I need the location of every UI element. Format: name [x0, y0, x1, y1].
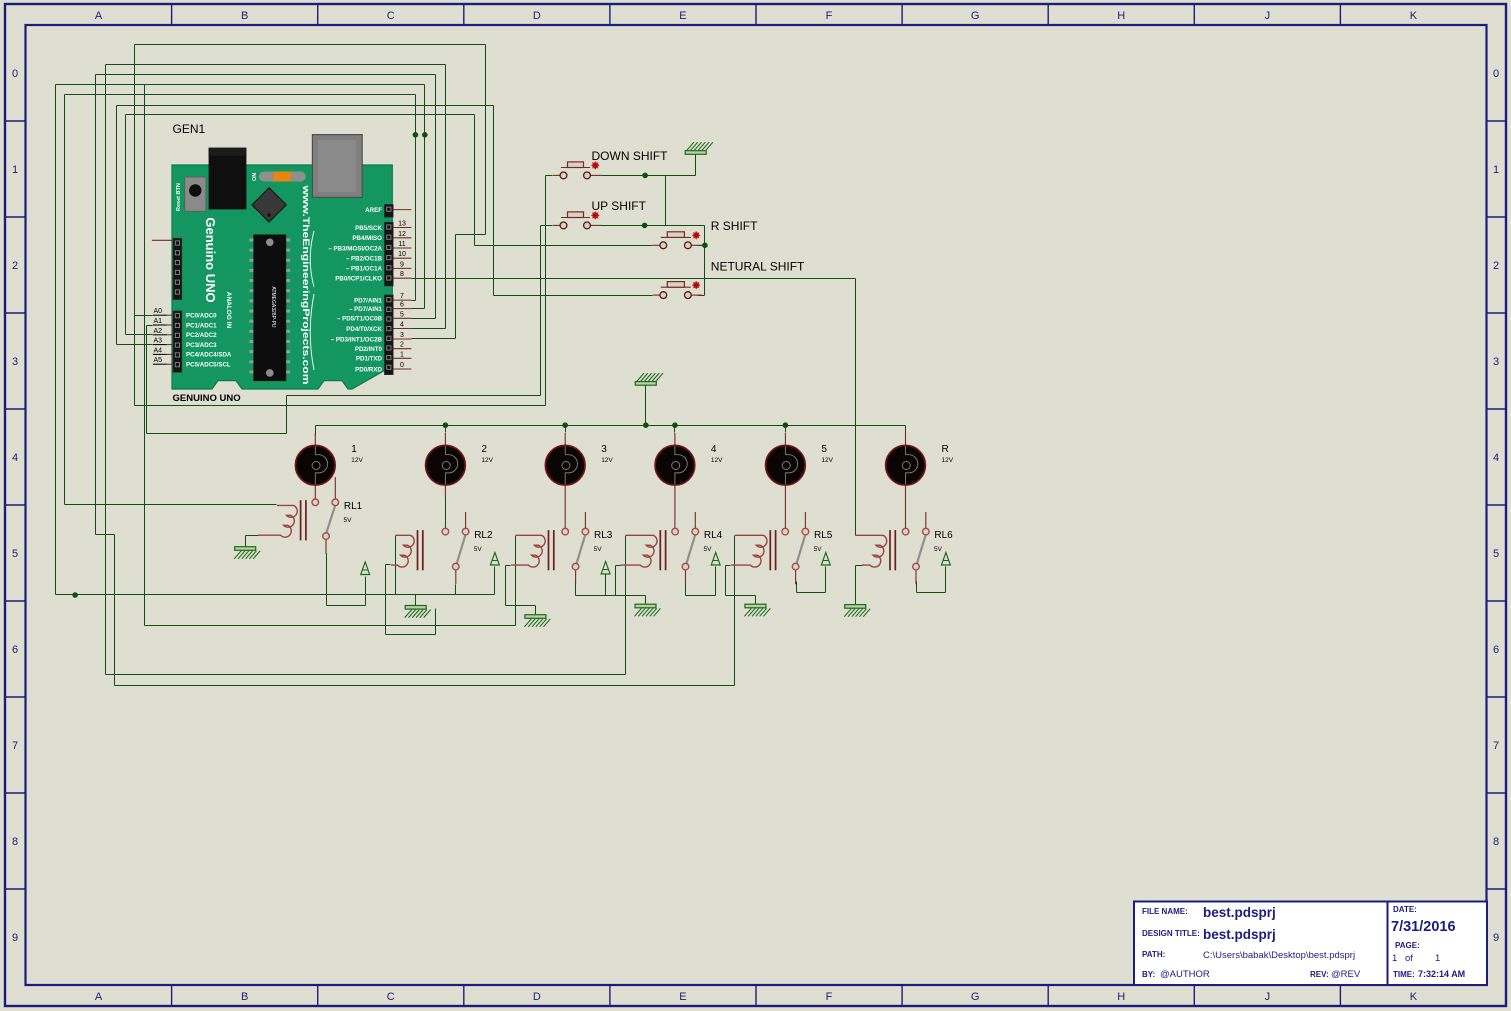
svg-text:2: 2 [12, 260, 18, 272]
wire lamp3 top [565, 426, 567, 433]
wire rl4 common drop [685, 582, 687, 596]
wire pin8/netural run [412, 278, 856, 280]
button NETURAL SHIFT [661, 286, 691, 288]
svg-text:1: 1 [1392, 953, 1397, 964]
wire rl5 coil drop [734, 536, 736, 686]
svg-text:13: 13 [398, 221, 406, 228]
svg-text:PD7/AIN1: PD7/AIN1 [354, 297, 382, 304]
wire rshift left drop [474, 115, 476, 246]
svg-text:K: K [1410, 10, 1418, 22]
svg-text:5V: 5V [814, 546, 823, 553]
junction rail ground [643, 422, 649, 428]
wire H6 netural net [117, 105, 494, 107]
svg-text:H: H [1117, 10, 1125, 22]
svg-text:– PB3/MOSI/OC2A: – PB3/MOSI/OC2A [328, 245, 382, 252]
wire down-shift rise [545, 176, 547, 406]
wire pin3 link [412, 338, 456, 340]
svg-text:5: 5 [1493, 548, 1499, 560]
svg-text:RL5: RL5 [814, 530, 833, 541]
svg-text:D: D [533, 10, 541, 22]
wire A3 link [117, 344, 153, 346]
wire V8 [144, 85, 146, 626]
svg-text:5V: 5V [474, 546, 483, 553]
svg-text:4: 4 [400, 322, 404, 329]
header power [173, 238, 182, 299]
junction pin7 riser [413, 132, 419, 138]
svg-text:DESIGN TITLE:: DESIGN TITLE: [1142, 929, 1200, 938]
pin 12 (PB4/MISO) [393, 237, 411, 239]
svg-text:2: 2 [481, 444, 487, 455]
wire up-shift rise [286, 396, 288, 434]
svg-text:A: A [95, 991, 103, 1003]
svg-text:0: 0 [400, 362, 404, 369]
terminal arrow 4 [711, 553, 720, 566]
svg-text:– PB1/OC1A: – PB1/OC1A [346, 266, 383, 273]
wire netural drop rl6 [855, 279, 857, 536]
ground (buttons) [685, 151, 706, 155]
pin 1 (PD1/TXD) [393, 357, 411, 359]
ground G2 (RL2) [405, 606, 426, 610]
svg-text:A5: A5 [154, 357, 163, 364]
ground G4 (RL5) [745, 604, 766, 608]
svg-text:PB0/ICP1/CLKO: PB0/ICP1/CLKO [335, 276, 382, 283]
wire down left [546, 175, 553, 177]
wire g4 stem [755, 596, 757, 605]
svg-text:PC4/ADC4/SDA: PC4/ADC4/SDA [186, 352, 232, 359]
junction left rail [72, 592, 78, 598]
svg-text:1: 1 [351, 444, 357, 455]
svg-text:F: F [826, 991, 833, 1003]
svg-text:– PD5/T1/OC0B: – PD5/T1/OC0B [337, 316, 383, 323]
pin 10 (PB2/OC1B) [393, 257, 411, 259]
ground G6 (RL6 coil) [845, 605, 866, 609]
title block [1134, 902, 1487, 986]
wire H7 rshift net [126, 114, 475, 116]
svg-text:7: 7 [1493, 740, 1499, 752]
wire rl6 common drop [916, 582, 918, 593]
terminal arrow 3 [601, 562, 610, 575]
svg-text:PAGE:: PAGE: [1395, 941, 1420, 950]
lamp R (12V) [905, 433, 907, 447]
svg-text:12V: 12V [351, 457, 363, 464]
svg-text:PD0/RXD: PD0/RXD [355, 366, 382, 373]
svg-text:RL1: RL1 [344, 501, 363, 512]
svg-text:0: 0 [1493, 68, 1499, 80]
svg-text:B: B [241, 10, 248, 22]
wire rl1 gnd drop [245, 536, 247, 547]
junction rail lamp4 [672, 422, 678, 428]
wire arrow6 stem [945, 567, 947, 593]
svg-text:8: 8 [1493, 836, 1499, 848]
svg-text:PC3/ADC3: PC3/ADC3 [186, 342, 217, 349]
svg-text:A2: A2 [154, 328, 163, 335]
svg-text:FILE NAME:: FILE NAME: [1142, 907, 1188, 916]
wire g2b stem [535, 606, 537, 616]
svg-text:3: 3 [1493, 356, 1499, 368]
svg-text:RL4: RL4 [704, 530, 723, 541]
wire chain2 [704, 226, 706, 296]
svg-text:7/31/2016: 7/31/2016 [1391, 919, 1456, 935]
wire V1 [55, 85, 57, 595]
wire lamp2 top [445, 426, 447, 433]
wire A0 link [135, 315, 153, 317]
wire A1 link [147, 325, 153, 327]
relay RL3 (5V) [548, 530, 550, 570]
wire rl6 common run [917, 592, 946, 594]
svg-text:NETURAL SHIFT: NETURAL SHIFT [711, 260, 805, 274]
ground (lamp rail) [635, 382, 656, 386]
svg-text:DATE:: DATE: [1393, 905, 1417, 914]
wire pin5 rise [435, 75, 437, 319]
pin A2 (PC2/ADC2) [166, 334, 173, 336]
svg-text:PD4/T0/XCK: PD4/T0/XCK [346, 326, 382, 333]
svg-text:REV:: REV: [1310, 970, 1329, 979]
svg-text:@AUTHOR: @AUTHOR [1160, 969, 1210, 980]
svg-text:– PD7/AIN1: – PD7/AIN1 [349, 306, 383, 313]
wire pin3 rise2 [485, 45, 487, 235]
pin 2 (PD2/INT0) [393, 348, 411, 350]
wire btn gnd stem [695, 155, 697, 176]
wire arrow1 stem [365, 577, 367, 606]
wire H4 pin6 net [56, 84, 425, 86]
svg-text:7: 7 [12, 740, 18, 752]
wire rl2 coilb rise [435, 609, 437, 635]
svg-text:5: 5 [400, 311, 404, 318]
wire pin3 rise [455, 235, 457, 339]
lamp 4 (12V) [674, 433, 676, 447]
junction rail lamp5 [783, 422, 789, 428]
svg-text:12V: 12V [601, 457, 613, 464]
wire rl1 common run [327, 605, 366, 607]
wire V7 [134, 45, 136, 406]
svg-text:A0: A0 [154, 308, 163, 315]
wire rl3 coilb run [506, 605, 536, 607]
svg-text:2: 2 [1493, 260, 1499, 272]
pin 5 (PD5/T1/OC0B) [393, 317, 411, 319]
pin A5 (PC5/ADC5/SCL) [166, 363, 173, 365]
pin A4 (PC4/ADC4/SDA) [166, 353, 173, 355]
svg-text:5V: 5V [594, 546, 603, 553]
wire rl2 coilb run [386, 634, 436, 636]
pin 0 (PD0/RXD) [393, 368, 411, 370]
wire pin6 link [412, 308, 425, 310]
ground G3 (RL3/RL4) [635, 604, 656, 608]
svg-text:9: 9 [12, 932, 18, 944]
junction rail lamp2 [443, 422, 449, 428]
svg-text:best.pdsprj: best.pdsprj [1203, 927, 1276, 942]
wire V5 [116, 106, 118, 345]
wire down right [602, 175, 696, 177]
svg-text:PB5/SCK: PB5/SCK [355, 225, 382, 232]
wire pin4 rise [445, 65, 447, 329]
svg-text:1: 1 [1493, 164, 1499, 176]
svg-text:www.TheEngineeringProjects.com: www.TheEngineeringProjects.com [301, 184, 311, 384]
junction r-shift row [702, 243, 708, 249]
svg-text:H: H [1117, 991, 1125, 1003]
wire rl1 coil feed [65, 504, 277, 506]
svg-text:3: 3 [601, 444, 607, 455]
wire V6 [125, 115, 127, 335]
svg-text:1: 1 [1435, 953, 1440, 964]
svg-text:8: 8 [12, 836, 18, 848]
wire lamp rail [316, 425, 906, 427]
wire arrow3 stem [605, 575, 607, 596]
wire rl5 common drop [796, 582, 798, 593]
terminal arrow 5 [821, 553, 830, 566]
pin 13 (PB5/SCK) [393, 227, 411, 229]
wire rl5 common run [797, 592, 826, 594]
wire arrow5 stem [825, 567, 827, 593]
svg-text:PD2/INT0: PD2/INT0 [355, 346, 383, 353]
pin A3 (PC3/ADC3) [166, 344, 173, 346]
svg-text:5V: 5V [704, 546, 713, 553]
wire lamp4 top [674, 426, 676, 433]
svg-text:AREF: AREF [365, 207, 382, 214]
lamp 1 (12V) [314, 433, 316, 447]
wire V2 [64, 95, 66, 505]
wire lamp2 bottom link [445, 497, 447, 529]
pin 7 (PD7/AIN1) [393, 299, 411, 301]
svg-text:10: 10 [398, 251, 406, 258]
svg-text:A4: A4 [154, 347, 163, 354]
wire rl2 main [56, 594, 456, 596]
wire rl3 common drop [575, 582, 577, 596]
wire rl3 coil run [145, 625, 516, 627]
svg-text:3: 3 [400, 332, 404, 339]
svg-text:PB4/MISO: PB4/MISO [352, 235, 382, 242]
svg-text:J: J [1265, 10, 1271, 22]
svg-text:5V: 5V [934, 546, 943, 553]
header digital 13-8 [385, 222, 394, 286]
wire chain1 [665, 176, 667, 226]
svg-text:5V: 5V [344, 517, 353, 524]
wire H3 pin5 net [96, 74, 436, 76]
wire lamp1 top [315, 426, 317, 435]
wire rl3 coil rise [515, 536, 517, 626]
svg-text:A1: A1 [154, 318, 163, 325]
wire rl5 coilb l [726, 565, 731, 567]
button R SHIFT [661, 236, 691, 238]
svg-text:G: G [971, 991, 980, 1003]
svg-text:7:32:14 AM: 7:32:14 AM [1418, 969, 1465, 979]
svg-text:PC5/ADC5/SCL: PC5/ADC5/SCL [186, 362, 231, 369]
svg-text:6: 6 [1493, 644, 1499, 656]
pin 4 (PD4/T0/XCK) [393, 328, 411, 330]
svg-text:of: of [1405, 953, 1413, 964]
relay RL1 (5V) [300, 500, 302, 540]
svg-text:5: 5 [12, 548, 18, 560]
svg-text:A: A [95, 10, 103, 22]
wire rl4 coilb drop [615, 566, 617, 596]
terminal arrow 6 [941, 553, 950, 566]
svg-text:C:\Users\babak\Desktop\best.pd: C:\Users\babak\Desktop\best.pdsprj [1203, 950, 1355, 961]
pin 11 (PB3/MOSI/OC2A) [393, 247, 411, 249]
wire rl3 coilb l [506, 565, 511, 567]
svg-text:PC0/ADC0: PC0/ADC0 [186, 313, 217, 320]
wire arrow4 stem [715, 567, 717, 596]
wire rl2 common vdrop [455, 585, 457, 595]
svg-text:4: 4 [711, 444, 717, 455]
wire pin6 rise [424, 85, 426, 309]
svg-text:DOWN SHIFT: DOWN SHIFT [592, 149, 669, 163]
svg-text:ON: ON [252, 173, 258, 181]
wire rl2 coilb drop [385, 565, 387, 635]
svg-text:RL2: RL2 [474, 530, 493, 541]
pin A0 (PC0/ADC0) [166, 314, 173, 316]
pin AREF (AREF) [393, 209, 411, 211]
svg-text:4: 4 [1493, 452, 1499, 464]
wire A1 drop [146, 326, 148, 434]
svg-text:RL6: RL6 [934, 530, 953, 541]
svg-text:ANALOG IN: ANALOG IN [225, 292, 232, 329]
wire rl4 common run [686, 595, 716, 597]
header analog A0-A5 [173, 311, 182, 372]
wire g2 stem [415, 595, 417, 607]
wire pin7 link [412, 300, 416, 302]
svg-text:GEN1: GEN1 [173, 122, 206, 136]
svg-text:7: 7 [400, 293, 404, 300]
svg-text:6: 6 [12, 644, 18, 656]
svg-text:– PB2/OC1B: – PB2/OC1B [346, 256, 383, 263]
junction rail lamp3 [562, 422, 568, 428]
pin A1 (PC1/ADC1) [166, 324, 173, 326]
svg-text:0: 0 [12, 68, 18, 80]
svg-text:D: D [533, 991, 541, 1003]
lamp 3 (12V) [564, 433, 566, 447]
wire rl1 common drop [326, 554, 328, 606]
relay RL2 (5V) [417, 530, 419, 570]
svg-text:Genuino UNO: Genuino UNO [203, 217, 218, 302]
wire net right link [698, 295, 705, 297]
wire rail gnd stem [645, 385, 647, 426]
svg-text:Reset BTN: Reset BTN [176, 183, 182, 211]
wire H5 pin7 net [65, 94, 416, 96]
svg-text:UP SHIFT: UP SHIFT [592, 199, 647, 213]
svg-text:6: 6 [400, 302, 404, 309]
wire pin3 jog [456, 234, 486, 236]
wire H2 pin4 net [106, 64, 446, 66]
header AREF [385, 205, 394, 218]
wire bottom bundle1 [106, 674, 626, 676]
svg-text:@REV: @REV [1331, 969, 1361, 980]
wire rl2 coilb l [386, 564, 391, 566]
wire down-shift run [135, 405, 546, 407]
wire rl5 coilb drop [725, 566, 727, 596]
wire rl1 coil gnd [246, 535, 259, 537]
wire rl2 coil drop [395, 536, 397, 595]
wire V3a [95, 75, 97, 535]
svg-text:1: 1 [12, 164, 18, 176]
wire rl5 coilb run [726, 595, 756, 597]
terminal arrow 1 [361, 562, 370, 575]
svg-text:E: E [679, 991, 686, 1003]
svg-text:J: J [1265, 991, 1271, 1003]
pin group brackets [310, 231, 314, 287]
lamp 5 (12V) [784, 433, 786, 447]
svg-text:11: 11 [398, 241, 405, 248]
wire lampR top [905, 426, 907, 439]
wire rl3 coilb drop [505, 566, 507, 606]
svg-text:PATH:: PATH: [1142, 950, 1165, 959]
wire lamp5 top [785, 426, 787, 433]
svg-text:12V: 12V [942, 457, 954, 464]
wire netural left drop [493, 106, 495, 296]
wire V3 jog [96, 534, 115, 536]
pin 6 (PD7/AIN1) [393, 308, 411, 310]
button DOWN SHIFT [561, 167, 590, 169]
wire V3b [114, 535, 116, 686]
svg-text:K: K [1410, 991, 1418, 1003]
wire g3 stem [645, 596, 647, 605]
svg-text:12: 12 [398, 231, 406, 238]
svg-text:– PD3/INT1/OC2B: – PD3/INT1/OC2B [331, 336, 383, 343]
svg-text:12V: 12V [481, 457, 493, 464]
svg-text:best.pdsprj: best.pdsprj [1203, 905, 1276, 920]
svg-text:E: E [679, 10, 686, 22]
svg-text:BY:: BY: [1142, 970, 1155, 979]
svg-text:C: C [387, 10, 395, 22]
svg-text:1: 1 [400, 351, 404, 358]
junction up-shift row [642, 223, 648, 229]
wire netural left run [494, 295, 653, 297]
pin 8 (PB0/ICP1/CLKO) [393, 277, 411, 279]
relay RL5 (5V) [769, 530, 771, 570]
wire up right [602, 225, 705, 227]
header digital 7-0 [385, 295, 394, 375]
svg-text:12V: 12V [711, 457, 723, 464]
svg-text:A3: A3 [154, 338, 163, 345]
wire bottom bundle2 [115, 685, 735, 687]
wire rl4 coilb l [616, 565, 621, 567]
svg-text:F: F [826, 10, 833, 22]
svg-text:C: C [387, 991, 395, 1003]
wire arrow2 stem [494, 567, 496, 595]
lamp 2 (12V) [444, 433, 446, 447]
svg-text:9: 9 [1493, 932, 1499, 944]
junction down-shift row [642, 173, 648, 179]
terminal arrow 2 [490, 553, 499, 566]
pin 3 (PD3/INT1/OC2B) [393, 338, 411, 340]
svg-text:PC1/ADC1: PC1/ADC1 [186, 322, 217, 329]
ground G1 (RL1 coil) [235, 547, 256, 551]
button UP SHIFT [561, 217, 590, 219]
wire A2 link [126, 334, 153, 336]
wire pin5 link [412, 318, 436, 320]
svg-text:2: 2 [400, 342, 404, 349]
junction pin6 riser [422, 132, 428, 138]
wire up-shift run [147, 433, 287, 435]
wire V4 [105, 65, 107, 675]
svg-text:9: 9 [400, 261, 404, 268]
svg-text:PC2/ADC2: PC2/ADC2 [186, 332, 217, 339]
svg-text:12V: 12V [821, 457, 833, 464]
wire pin4 link [412, 328, 446, 330]
svg-text:8: 8 [400, 271, 404, 278]
relay RL4 (5V) [659, 530, 661, 570]
svg-text:5: 5 [821, 444, 827, 455]
wire rl2 common run [456, 594, 495, 596]
wire up-shift rise2 [540, 226, 542, 396]
wire rl6 coilb l [856, 565, 863, 567]
pin 9 (PB1/OC1A) [393, 267, 411, 269]
svg-text:RL3: RL3 [594, 530, 613, 541]
svg-text:R: R [942, 444, 949, 455]
svg-text:3: 3 [12, 356, 18, 368]
svg-text:4: 4 [12, 452, 18, 464]
wire rl4 coil drop [625, 536, 627, 675]
wire up-shift run2 [287, 395, 541, 397]
svg-text:G: G [971, 10, 980, 22]
